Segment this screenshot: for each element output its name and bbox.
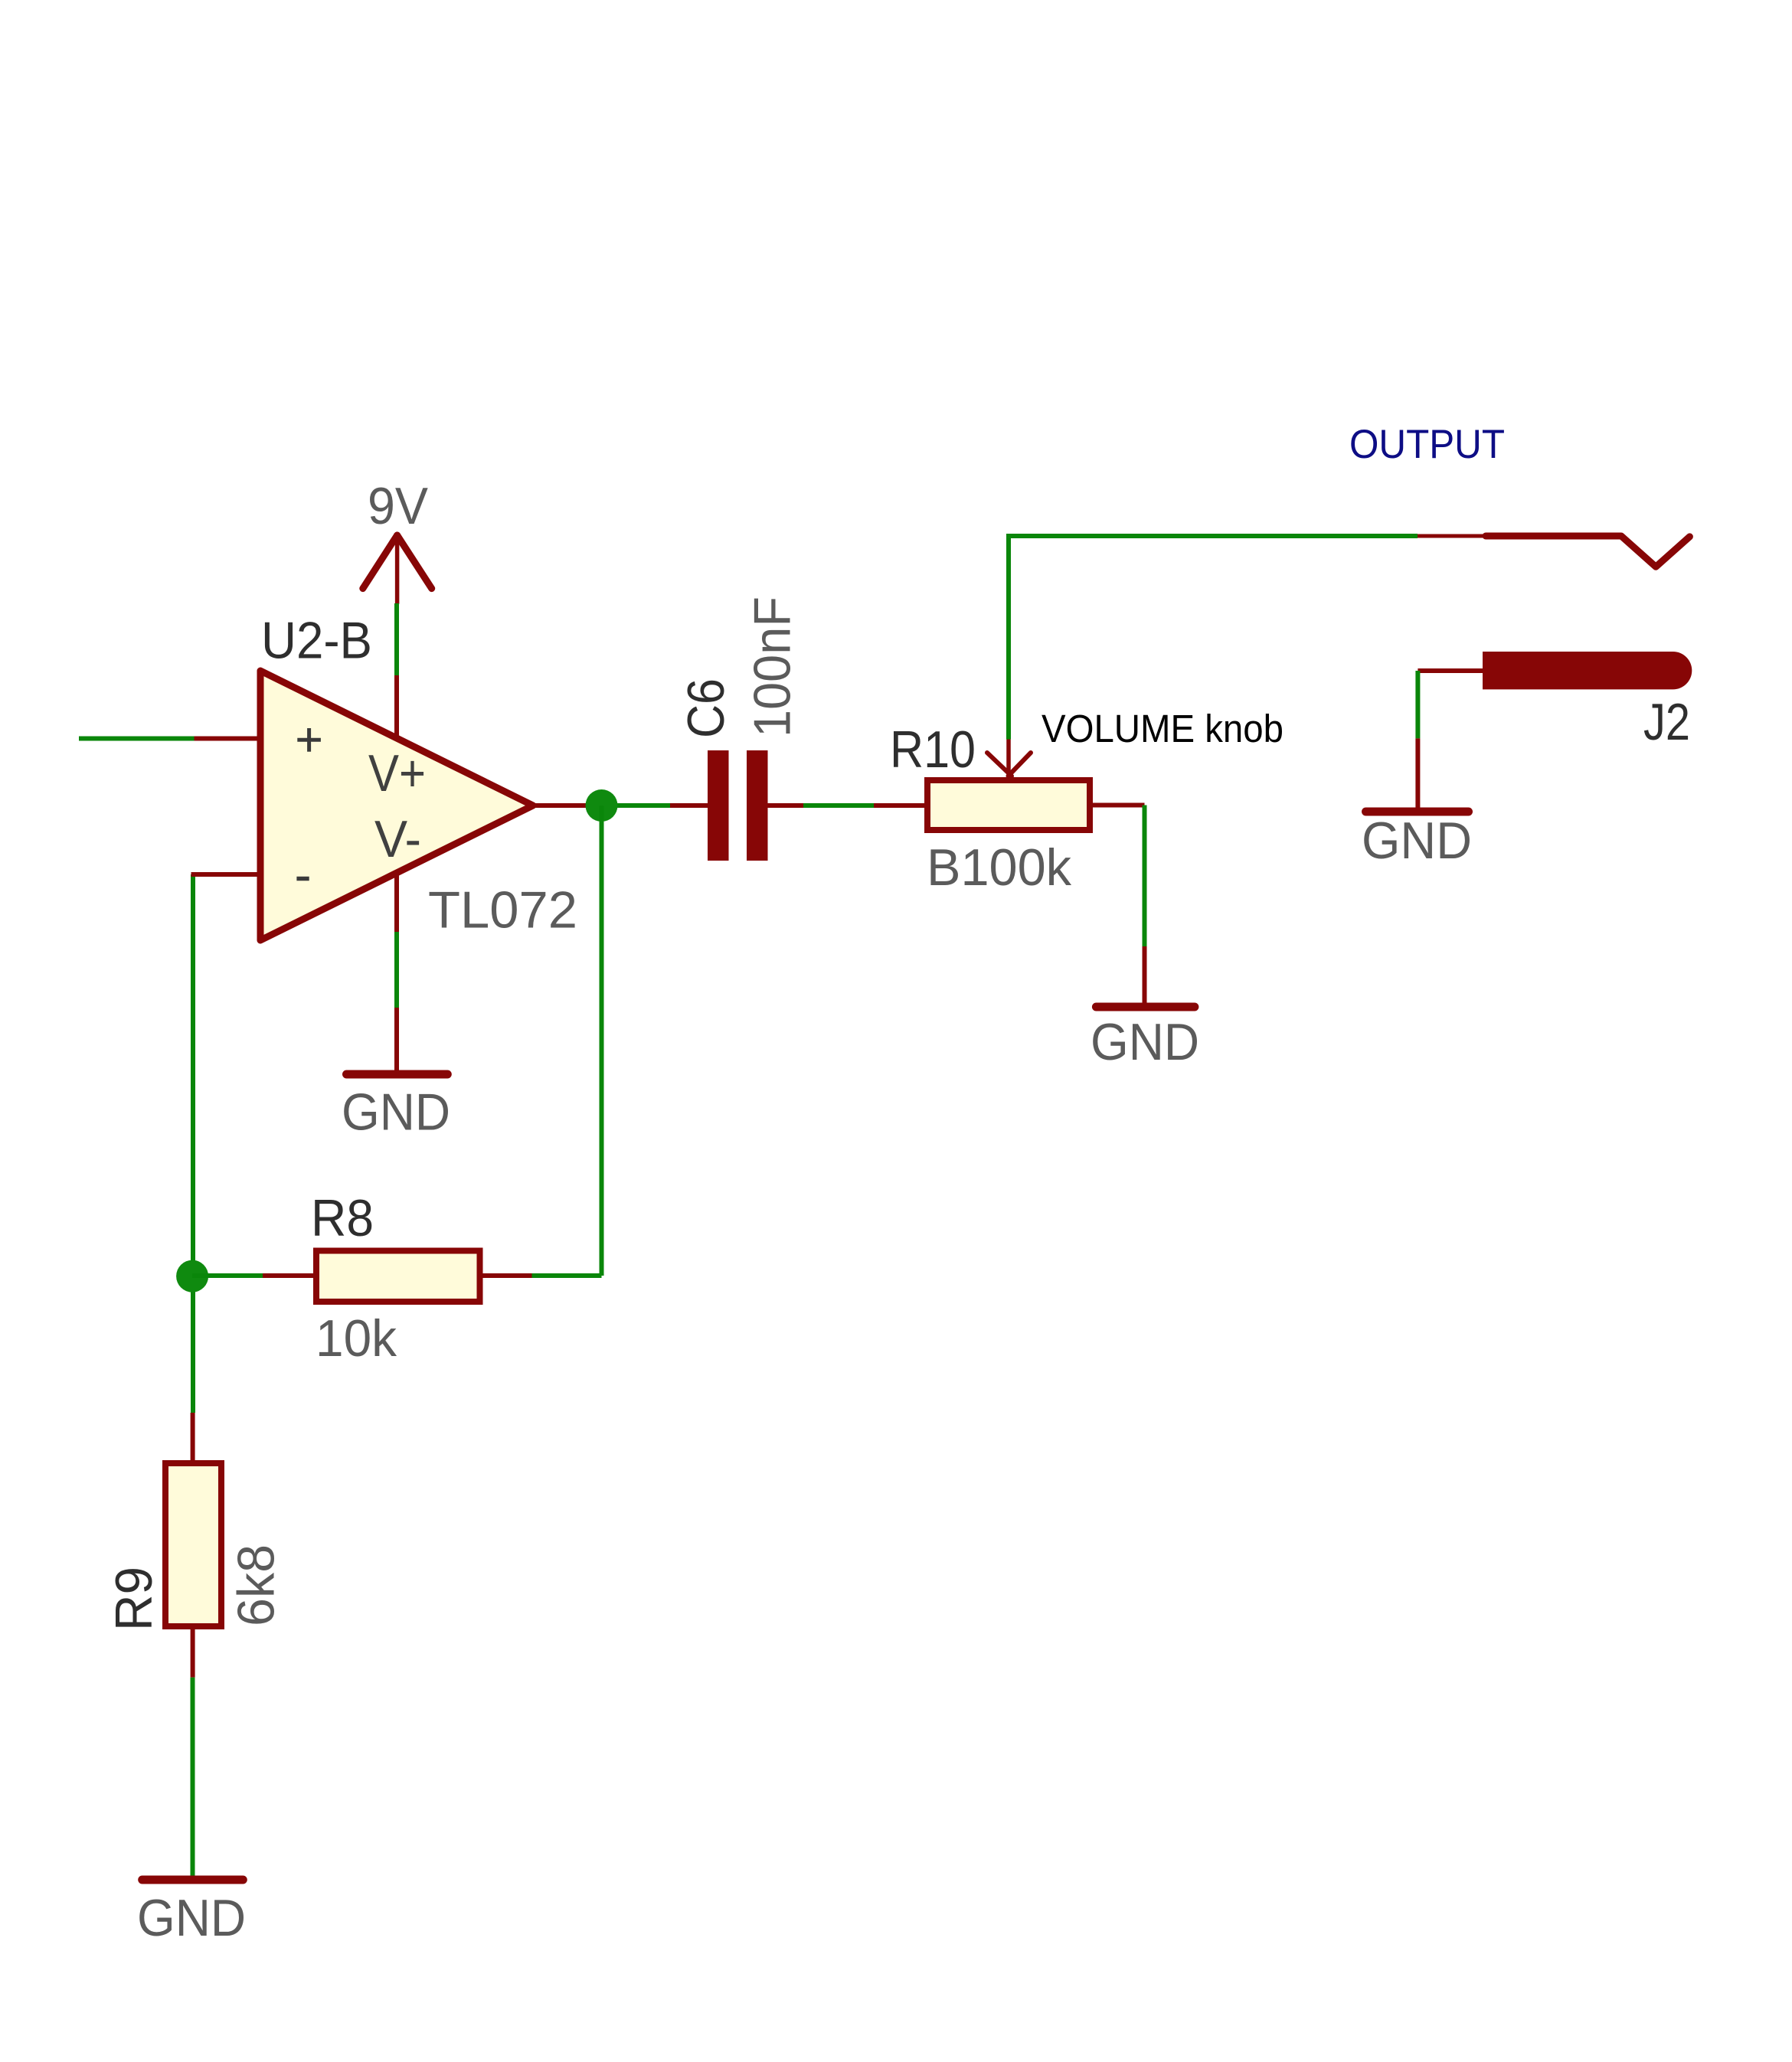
wire 9V to V+ xyxy=(394,603,399,675)
junction feedback node xyxy=(176,1260,208,1292)
svg-text:GND: GND xyxy=(137,1889,246,1947)
capacitor C6 xyxy=(670,750,803,861)
svg-text:B100k: B100k xyxy=(927,838,1072,897)
wire J2 sleeve to GND xyxy=(1415,671,1420,738)
resistor R8 body xyxy=(316,1251,480,1302)
svg-text:C6: C6 xyxy=(677,678,735,738)
ground G1 under op-amp xyxy=(342,1008,450,1141)
op-amp U2-B pin - xyxy=(191,872,262,877)
resistor R9 body xyxy=(165,1463,221,1626)
svg-text:GND: GND xyxy=(1362,812,1472,870)
wire - input feedback xyxy=(191,874,195,1413)
svg-text:V+: V+ xyxy=(368,744,426,802)
svg-text:J2: J2 xyxy=(1643,693,1690,751)
ground G4 under R9 xyxy=(137,1880,246,1947)
svg-text:9V: 9V xyxy=(368,477,429,535)
potentiometer R10 wiper arrow xyxy=(987,740,1031,776)
op-amp plus sign xyxy=(297,728,321,752)
svg-text:U2-B: U2-B xyxy=(261,612,372,670)
svg-text:10k: 10k xyxy=(316,1309,397,1368)
wire + input xyxy=(79,737,195,741)
potentiometer R10 body xyxy=(927,780,1090,830)
resistor R9 bottom pin xyxy=(191,1626,195,1678)
svg-text:TL072: TL072 xyxy=(428,881,577,940)
connector J2 sleeve pin xyxy=(1418,668,1483,673)
resistor R9 top pin xyxy=(191,1413,195,1463)
op-amp U2-B triangle xyxy=(260,671,533,940)
wire output to C6 xyxy=(590,803,670,808)
wire wiper to OUTPUT xyxy=(1009,536,1418,740)
resistor R8 left pin xyxy=(263,1273,316,1278)
op-amp U2-B pin + xyxy=(195,737,262,741)
wire R8 to output junction xyxy=(532,1273,602,1278)
connector J2 plug body xyxy=(1483,652,1692,689)
resistor R8 right pin xyxy=(480,1273,532,1278)
svg-text:R8: R8 xyxy=(311,1189,374,1247)
svg-text:VOLUME knob: VOLUME knob xyxy=(1042,707,1284,750)
svg-text:V-: V- xyxy=(374,810,421,868)
op-amp V+ pin xyxy=(394,675,399,740)
wire R9 to GND xyxy=(191,1678,195,1880)
op-amp minus sign xyxy=(296,877,309,881)
op-amp output pin xyxy=(533,803,590,808)
svg-text:OUTPUT: OUTPUT xyxy=(1349,422,1505,467)
wire to J2 tip red segment xyxy=(1418,534,1486,538)
wire C6 to R10 xyxy=(803,803,874,808)
svg-text:R10: R10 xyxy=(890,721,976,779)
op-amp V- pin down xyxy=(394,873,399,932)
potentiometer R10 left pin xyxy=(874,803,927,808)
svg-text:100nF: 100nF xyxy=(744,596,802,737)
ground G2 under R10 xyxy=(1091,946,1199,1071)
wire V- to GND xyxy=(394,932,399,1008)
wire R10 to GND xyxy=(1143,806,1147,947)
svg-text:R9: R9 xyxy=(105,1567,163,1631)
svg-text:GND: GND xyxy=(1091,1013,1199,1071)
svg-text:GND: GND xyxy=(342,1083,450,1141)
wire output junction down to R8 xyxy=(600,806,604,1276)
potentiometer R10 right pin xyxy=(1090,803,1145,808)
wire junction to R8 xyxy=(192,1273,263,1278)
ground G3 under J2 xyxy=(1362,738,1472,870)
junction output node xyxy=(586,789,618,822)
connector J2 tip contact xyxy=(1486,536,1689,567)
svg-text:6k8: 6k8 xyxy=(227,1544,285,1626)
9V power symbol xyxy=(363,535,432,603)
